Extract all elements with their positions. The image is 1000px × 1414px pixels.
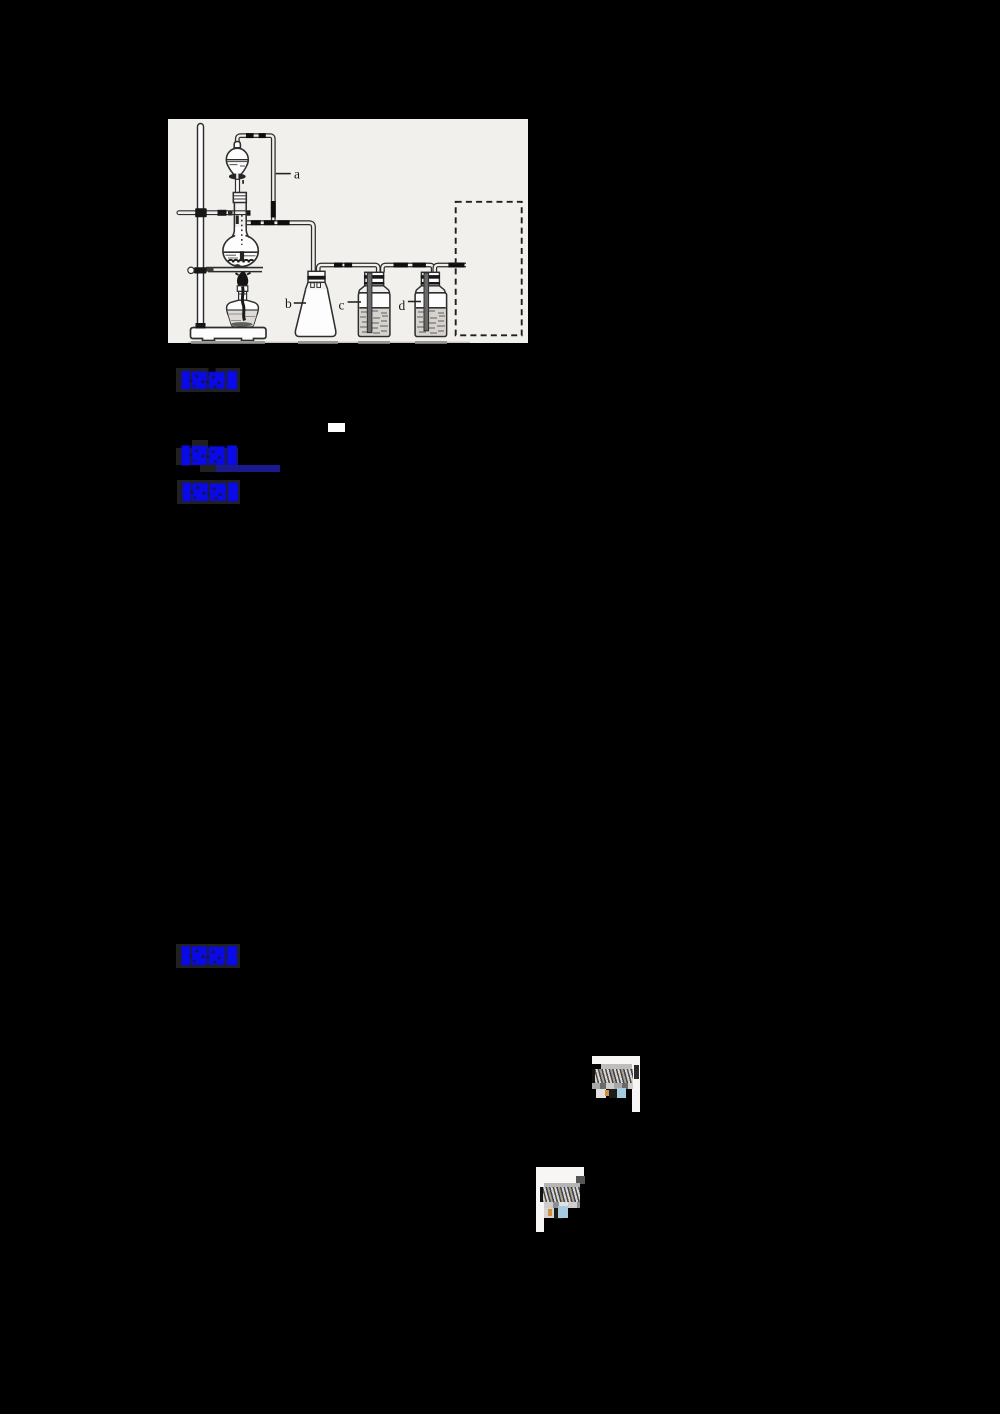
powder in flask (228, 260, 254, 268)
flask neck (234, 203, 246, 231)
dashed collection box (456, 202, 522, 335)
marker daan (192, 440, 208, 448)
svg-text:a: a (294, 167, 300, 182)
funnel liquid (227, 159, 248, 161)
apparatus diagram image (168, 119, 528, 343)
clamp boss (195, 208, 207, 217)
iron ring plate (206, 267, 263, 269)
bottle d shoulder (415, 286, 445, 293)
flask b body (295, 289, 335, 336)
pinch mark (246, 133, 254, 138)
stand rod (198, 124, 204, 328)
marker fenxi (177, 480, 240, 504)
separating funnel stopper (234, 142, 240, 148)
label a (276, 173, 291, 175)
bottle c body (358, 293, 390, 337)
drip tick (242, 180, 244, 184)
marker jieda (176, 944, 240, 968)
navy underline (216, 465, 280, 473)
table shadow strips (188, 342, 470, 343)
bottle c inner tube (367, 273, 372, 333)
tube d out (435, 265, 466, 273)
tube a (funnel top to tee) (237, 136, 273, 221)
pinch mark (277, 220, 289, 225)
rod-base joint (196, 323, 206, 329)
pinch mark (271, 201, 276, 218)
funnel cone (228, 165, 247, 176)
ring boss (194, 267, 207, 273)
bottle c shoulder (359, 286, 390, 293)
tube c to d (382, 265, 433, 273)
flask liquid (223, 251, 258, 253)
pinch mark (251, 220, 261, 225)
lamp wick (242, 287, 244, 321)
drip dotted line (241, 215, 243, 245)
bottle c liquid (359, 308, 389, 336)
flask b shoulder (305, 282, 327, 289)
formula fragment 1 (592, 1055, 640, 1113)
formula fragment 2 (536, 1167, 585, 1232)
tube run to flask b (247, 223, 313, 271)
bottle d liquid (416, 308, 446, 336)
pinch mark (412, 263, 426, 268)
pinch mark (334, 263, 343, 268)
lamp wick holder (237, 286, 248, 292)
stand base (191, 328, 267, 341)
round flask bulb (223, 235, 258, 267)
stem tube in liquid (240, 251, 244, 261)
pinch mark (344, 263, 352, 268)
bottle d cap (421, 272, 439, 286)
pinch mark (259, 133, 266, 138)
flask stopper (233, 193, 246, 203)
svg-text:d: d (399, 298, 406, 313)
svg-text:b: b (285, 296, 292, 311)
lamp alcohol (227, 310, 257, 327)
clamp jaw (218, 210, 227, 216)
bottle c cap (365, 272, 384, 286)
white dash (328, 423, 345, 432)
bottle d inner tube (424, 273, 429, 331)
tube b to c (318, 265, 378, 273)
funnel bulb (226, 148, 248, 171)
ring screw (188, 267, 194, 273)
funnel stem (236, 179, 240, 193)
bottle d body (415, 293, 447, 337)
svg-text:c: c (339, 298, 345, 313)
lamp body (227, 300, 259, 327)
alcohol lamp flame (237, 272, 248, 288)
clamp bar (177, 211, 247, 215)
marker kaodian (176, 368, 240, 392)
pinch mark (264, 220, 275, 225)
pinch mark (394, 263, 408, 268)
pinch mark (448, 263, 464, 268)
lamp neck (239, 291, 247, 300)
stopcock (229, 174, 246, 180)
flask b stopper (308, 271, 325, 282)
